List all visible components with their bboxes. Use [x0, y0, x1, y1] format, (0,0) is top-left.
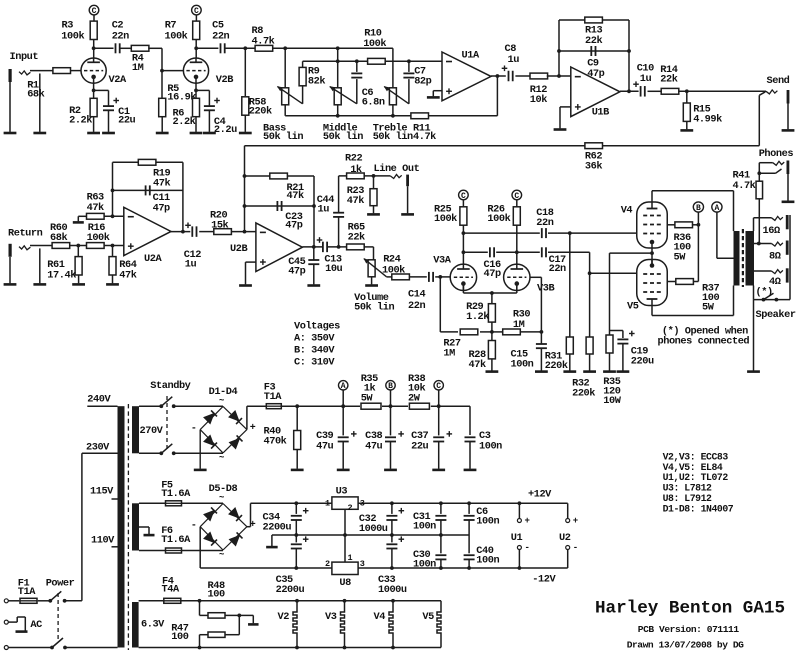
wire R26 to V3B plate [515, 225, 519, 264]
tap 240V [87, 394, 117, 407]
ground C15 [535, 370, 548, 373]
resistor R36 [667, 222, 699, 263]
resistor R58 [242, 48, 272, 132]
ground R2 [87, 132, 100, 135]
svg-text:2W: 2W [408, 393, 421, 405]
svg-text:5W: 5W [361, 393, 374, 405]
jack Send [766, 75, 790, 129]
ground return switch [33, 283, 46, 286]
svg-text:-: - [191, 424, 197, 435]
wire middle pot drop [336, 48, 340, 88]
svg-text:1M: 1M [513, 319, 525, 331]
wire R4 to V2B grid node [148, 48, 183, 72]
fuse F1 [4, 577, 50, 603]
resistor R7 [165, 20, 200, 43]
wire tone stack bottom line [285, 105, 411, 118]
svg-text:68k: 68k [50, 232, 67, 244]
svg-text:2.2k: 2.2k [173, 116, 196, 128]
capacitor C9 [587, 46, 604, 80]
supply node C circle V2B [192, 5, 202, 21]
capacitor C2 [112, 20, 129, 54]
svg-text:C: C [514, 192, 519, 201]
pentode V5 [627, 260, 667, 313]
svg-text:-: - [573, 543, 578, 553]
ground R63 left stub [73, 216, 87, 222]
svg-text:~: ~ [219, 453, 224, 463]
svg-text:22u: 22u [411, 440, 428, 452]
svg-text:~: ~ [219, 396, 224, 406]
svg-text:22k: 22k [585, 35, 602, 47]
capacitor C6 [351, 61, 385, 108]
resistor R19 [138, 159, 170, 189]
ground R28 [486, 370, 499, 373]
svg-text:100: 100 [208, 589, 225, 601]
ground input sleeve [4, 132, 17, 135]
wire send return contact [759, 92, 765, 146]
svg-text:V2A: V2A [109, 74, 127, 86]
resistor R20 [210, 210, 247, 255]
svg-text:3: 3 [360, 499, 365, 509]
wire D5-D8 minus to negative rail [200, 527, 332, 570]
svg-text:6.3V: 6.3V [141, 619, 165, 631]
svg-text:4.7k: 4.7k [413, 131, 436, 143]
svg-text:47k: 47k [469, 359, 486, 371]
svg-text:Voltages: Voltages [294, 321, 340, 333]
svg-text:V2,V3: ECC83: V2,V3: ECC83 [663, 451, 729, 462]
cathode network V2B [194, 83, 209, 106]
triode V3A [433, 255, 476, 291]
capacitor C31 [413, 503, 446, 535]
resistor R35 cathode 120 10W [603, 335, 621, 407]
capacitor C12 [184, 223, 201, 271]
ground C39 [337, 469, 350, 472]
svg-text:U8: L7912: U8: L7912 [663, 493, 712, 504]
wire R12 to U1B minus [547, 74, 571, 78]
ground R6 [190, 132, 203, 135]
wire R11 to U1A output [429, 76, 498, 116]
ground volume pot [365, 284, 378, 287]
resistor R5 [159, 71, 197, 132]
wire V3A plate to V4 grid [463, 231, 637, 235]
resistor R14 [660, 64, 679, 94]
wire R24 to C14 [410, 276, 427, 278]
wire R63 to U2A minus [104, 214, 124, 218]
resistor R47 [171, 622, 239, 649]
wire 0V middle line [272, 533, 469, 546]
svg-text:1u: 1u [185, 259, 197, 271]
ground C4 [203, 132, 216, 135]
ground R23 [367, 213, 380, 216]
ground U1B plus input [554, 107, 571, 130]
svg-text:4.99k: 4.99k [693, 113, 722, 125]
regulator U3 [325, 485, 365, 535]
wire R14 to send jack [678, 89, 766, 93]
svg-text:U8: U8 [339, 577, 351, 589]
wire R1 to V2A grid [71, 70, 82, 72]
svg-text:22n: 22n [212, 30, 229, 42]
svg-text:82k: 82k [308, 75, 325, 87]
node A circle rail [339, 381, 348, 407]
wire V5 plate to transformer [652, 286, 734, 316]
wire U1B output to C10 [620, 89, 639, 93]
fuse F4 [139, 576, 441, 604]
svg-text:T1.6A: T1.6A [161, 534, 191, 546]
capacitor C11 [146, 185, 170, 214]
resistor R10 [363, 27, 386, 64]
ground bridge D1-D4 minus [194, 430, 207, 470]
resistor R40 [264, 406, 301, 469]
cathode network V2A [92, 83, 109, 106]
wire C12 to R20 [199, 231, 213, 233]
svg-text:PCB Version: 071111: PCB Version: 071111 [638, 624, 740, 635]
wire C8 to R12 [515, 75, 530, 77]
svg-text:17.4k: 17.4k [47, 269, 76, 281]
node B circle rail [386, 381, 395, 407]
wire volume wiper to R24 [386, 276, 391, 278]
jack Return [8, 227, 43, 256]
svg-text:50k lin: 50k lin [323, 131, 363, 143]
wire U2B output line [302, 245, 346, 249]
winding 270V secondary bar [132, 406, 139, 453]
capacitor C10 [633, 62, 654, 96]
capacitor C33 [378, 535, 407, 596]
wire R60 to R16 [70, 244, 87, 248]
svg-text:C: C [461, 192, 466, 201]
potentiometer Volume 50k [354, 259, 394, 314]
resistor R16 [87, 222, 110, 249]
svg-text:phones connected: phones connected [658, 335, 750, 347]
svg-text:C: C [194, 7, 199, 16]
fuse F6 [139, 525, 223, 553]
wire plate coupling line C16 C17 [463, 252, 637, 275]
svg-text:B: 340V: B: 340V [294, 345, 335, 357]
svg-text:V4,V5: EL84: V4,V5: EL84 [663, 462, 723, 473]
jack speaker 4 ohm [769, 268, 789, 288]
wire R3 to plate node [92, 40, 96, 59]
capacitor C32 [359, 503, 404, 535]
svg-text:220u: 220u [631, 356, 654, 368]
text phones note [658, 325, 750, 347]
wire U1A output node [491, 74, 506, 78]
svg-text:Standby: Standby [150, 380, 190, 392]
svg-text:100n: 100n [413, 558, 436, 570]
ground input switch [33, 132, 46, 135]
resistor R27 [443, 329, 477, 360]
wire treble pot drop [392, 48, 394, 88]
ground R32 [583, 370, 596, 373]
svg-text:4.7k: 4.7k [252, 35, 275, 47]
resistor R62 [585, 143, 603, 173]
ground R5 [156, 132, 169, 135]
wire negative 12V rail [358, 550, 568, 570]
svg-text:220k: 220k [545, 360, 568, 372]
wire R25 to V3A plate [462, 225, 466, 264]
wire R22 line out line [339, 174, 391, 178]
svg-text:470k: 470k [264, 435, 287, 447]
svg-text:T1.6A: T1.6A [161, 488, 191, 500]
svg-text:47k: 47k [153, 178, 170, 190]
wire R20 to U2B minus [232, 230, 256, 234]
capacitor C23 [277, 201, 302, 231]
svg-text:U2B: U2B [230, 243, 247, 255]
wire R7 to plate node [194, 40, 218, 59]
resistor R64 [109, 246, 137, 284]
svg-text:22n: 22n [112, 30, 129, 42]
svg-text:230V: 230V [86, 442, 110, 454]
heater V3 [325, 599, 346, 650]
op-amp U1A [442, 49, 491, 101]
svg-text:22n: 22n [408, 300, 425, 312]
svg-text:5W: 5W [702, 302, 715, 314]
svg-text:8Ω: 8Ω [769, 251, 781, 263]
svg-text:50k lin: 50k lin [354, 302, 394, 314]
svg-text:16Ω: 16Ω [763, 225, 780, 237]
jack Line Out [374, 163, 420, 214]
connector U1 12V [511, 503, 530, 568]
wire speaker common with switch [754, 215, 791, 302]
svg-text:~: ~ [219, 550, 224, 560]
svg-text:U2A: U2A [144, 253, 162, 265]
svg-text:82p: 82p [414, 75, 431, 87]
capacitor C34 [263, 503, 309, 535]
svg-text:+: + [573, 516, 578, 526]
svg-text:3: 3 [360, 559, 365, 569]
svg-text:T1A: T1A [264, 391, 282, 403]
resistor R28 [469, 341, 496, 371]
output transformer T2 [734, 229, 755, 287]
wire tone stack middle line to U1A [303, 59, 442, 63]
wire R62 feedback line [245, 145, 760, 147]
svg-text:1M: 1M [443, 348, 455, 360]
ground R35 cathode [603, 370, 616, 373]
capacitor C39 [316, 406, 357, 469]
svg-text:+12V: +12V [528, 489, 552, 501]
svg-text:10W: 10W [603, 395, 621, 407]
resistor R31 [545, 233, 574, 372]
svg-text:220k: 220k [249, 106, 272, 118]
wire 230V to power switch [65, 453, 82, 601]
wire input jack to R1 [10, 71, 53, 132]
text drawn by [627, 639, 744, 650]
svg-text:Drawn 13/07/2008 by DG: Drawn 13/07/2008 by DG [627, 639, 744, 650]
ground R58 [239, 132, 252, 135]
svg-text:Speaker: Speaker [756, 309, 796, 321]
svg-text:U1A: U1A [462, 49, 480, 61]
wire R29 to R28 node [490, 322, 494, 340]
svg-text:V5: V5 [422, 611, 434, 623]
resistor R6 [173, 98, 200, 132]
capacitor C14 [408, 272, 433, 312]
resistor R63 [87, 192, 105, 220]
resistor R35 1k 5W [361, 373, 381, 409]
potentiometer Treble 50k [373, 87, 413, 143]
svg-text:22n: 22n [549, 263, 566, 275]
svg-text:2200u: 2200u [276, 584, 305, 596]
svg-text:U2: U2 [559, 532, 571, 544]
switch Power [46, 577, 75, 649]
wire V4 plate to transformer [652, 191, 734, 231]
capacitor C5 [212, 20, 229, 54]
wire U2A output to C12 [171, 230, 190, 234]
svg-text:36k: 36k [585, 161, 602, 173]
ground R61 [72, 283, 85, 286]
text speaker [756, 309, 796, 321]
tap 230V [82, 442, 118, 454]
svg-text:47p: 47p [153, 202, 170, 214]
ground R31 [563, 370, 576, 373]
fuse F5 [139, 479, 223, 506]
winding 6.3V secondary bar [132, 602, 139, 648]
svg-text:Return: Return [8, 227, 43, 239]
svg-text:V3B: V3B [537, 282, 554, 294]
svg-text:1.2k: 1.2k [466, 311, 489, 323]
svg-text:10u: 10u [325, 263, 342, 275]
supply node C circle R26 [512, 190, 522, 207]
triode V2A [81, 58, 127, 86]
svg-text:100n: 100n [476, 516, 499, 528]
wire C14 to V3A grid [435, 275, 450, 279]
ground send sleeve [782, 129, 795, 132]
wire R16 to U2A plus [104, 244, 124, 248]
svg-text:22k: 22k [660, 74, 677, 86]
resistor R12 [530, 73, 548, 106]
wire U2A feedback verticals [111, 162, 183, 231]
ground R40 [291, 469, 304, 472]
ground U2B plus input [239, 262, 256, 285]
resistor R9 [299, 61, 325, 104]
ground speaker common [747, 300, 760, 372]
resistor R3 [61, 20, 97, 43]
wire V3A grid leak [440, 277, 458, 332]
text 6.3V [141, 619, 165, 631]
fuse F3 [264, 382, 282, 409]
svg-text:V2B: V2B [216, 74, 233, 86]
svg-text:U1: U1 [511, 532, 523, 544]
svg-text:100n: 100n [413, 520, 436, 532]
svg-text:270V: 270V [140, 425, 164, 437]
wire U2B feedback verticals [243, 146, 316, 247]
svg-text:2: 2 [325, 559, 330, 569]
resistor R21 [270, 173, 304, 202]
wire U1B feedback loop [557, 20, 631, 91]
resistor R48 [198, 580, 240, 618]
svg-text:1000u: 1000u [359, 523, 388, 535]
wire R65 to volume pot [364, 247, 373, 260]
ground line out [401, 213, 414, 216]
resistor R4 [131, 45, 149, 74]
text voltages legend [294, 321, 340, 369]
svg-text:10k: 10k [530, 94, 547, 106]
svg-text:100k: 100k [61, 30, 84, 42]
svg-text:100: 100 [171, 631, 188, 643]
svg-text:C14: C14 [408, 289, 425, 301]
supply node C circle V2A [89, 5, 99, 21]
text -12V [532, 574, 556, 586]
svg-text:A: A [714, 204, 719, 213]
capacitor C40 [464, 535, 500, 568]
jack speaker 8 ohm [769, 241, 789, 263]
svg-text:R22: R22 [345, 153, 362, 165]
svg-text:Phones: Phones [759, 148, 794, 160]
svg-text:50k lin: 50k lin [373, 131, 413, 143]
input jack J1 [9, 51, 39, 82]
wire heater bottom line [139, 647, 441, 649]
capacitor C6 supply [464, 503, 500, 535]
op-amp U2A [124, 207, 171, 265]
capacitor C45 [288, 247, 319, 285]
svg-text:6.8n: 6.8n [362, 97, 385, 109]
svg-text:47k: 47k [87, 202, 104, 214]
svg-text:22n: 22n [536, 217, 553, 229]
ground humdinger [248, 623, 258, 626]
resistor R61 [47, 246, 82, 284]
pentode V4 [621, 202, 668, 248]
wire positive 12V rail [358, 501, 568, 518]
svg-text:220k: 220k [572, 387, 595, 399]
svg-text:-12V: -12V [532, 574, 556, 586]
svg-text:15k: 15k [211, 219, 228, 231]
resistor R29 [466, 301, 495, 323]
svg-text:B: B [696, 204, 701, 213]
capacitor C17 [542, 247, 566, 275]
resistor R60 [50, 222, 70, 249]
resistor R32 [572, 273, 595, 399]
svg-text:Input: Input [10, 51, 39, 63]
svg-text:100n: 100n [476, 555, 499, 567]
heater V4 [374, 599, 395, 650]
capacitor C19 [617, 331, 654, 371]
svg-text:~: ~ [219, 493, 224, 503]
svg-text:T4A: T4A [162, 584, 180, 596]
svg-text:240V: 240V [87, 394, 111, 406]
ground R64 [106, 283, 119, 286]
resistor R24 [382, 253, 409, 279]
capacitor C44 [317, 176, 344, 247]
resistor R26 [487, 203, 520, 225]
svg-text:A: A [341, 382, 346, 391]
wire speaker secondary taps [754, 218, 772, 300]
svg-text:115V: 115V [90, 485, 114, 497]
connector U2 12V [559, 516, 578, 553]
svg-text:100k: 100k [487, 213, 510, 225]
capacitor C18 [536, 207, 553, 238]
svg-text:V3A: V3A [433, 255, 451, 267]
resistor R65 [347, 222, 365, 250]
svg-text:U1B: U1B [592, 107, 609, 119]
svg-text:C: C [436, 382, 441, 391]
svg-text:-: - [191, 521, 197, 532]
svg-text:100k: 100k [87, 232, 110, 244]
svg-text:U3: U3 [336, 485, 348, 497]
svg-text:2: 2 [348, 503, 353, 513]
tap 115V [90, 485, 118, 499]
wire bridge plus to F3 [247, 406, 266, 429]
wire bass pot drop [284, 48, 286, 88]
capacitor C15 [511, 344, 547, 371]
svg-text:47k: 47k [119, 269, 136, 281]
wire R27 to node [480, 331, 492, 333]
capacitor C13 [317, 237, 343, 275]
winding 12V secondary bar [132, 503, 139, 550]
svg-text:47p: 47p [484, 268, 501, 280]
resistor R22 [345, 153, 364, 179]
resistor R11 [411, 113, 436, 143]
svg-text:100n: 100n [511, 359, 534, 371]
text +12V [528, 489, 552, 501]
svg-text:50k lin: 50k lin [263, 131, 303, 143]
svg-text:Harley Benton GA15: Harley Benton GA15 [595, 599, 785, 619]
connector AC mains [4, 617, 117, 650]
